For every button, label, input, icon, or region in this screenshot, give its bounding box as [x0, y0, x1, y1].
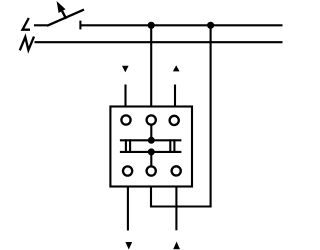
terminal circle bottom-right — [172, 166, 181, 175]
switch fixed contact tick — [79, 21, 81, 30]
arrow down (input) above box — [122, 66, 129, 73]
label N — [20, 37, 34, 51]
label L — [23, 18, 31, 30]
node on L (to terminal) — [148, 22, 155, 29]
terminal circle top-middle — [147, 115, 156, 124]
bus end tick left inner — [129, 139, 131, 153]
arrow up (input) below box — [173, 242, 180, 250]
bus junction dot lower — [148, 148, 155, 155]
internal link top-middle circle to bus — [150, 125, 152, 141]
wire L — [80, 24, 282, 26]
bus junction dot upper — [148, 137, 155, 144]
stub top-left — [124, 85, 126, 107]
bus end tick right inner — [169, 139, 171, 153]
stub top-right — [174, 85, 176, 107]
bus end tick left outer — [125, 139, 127, 153]
terminal circle bottom-left — [123, 166, 132, 175]
terminal circle bottom-middle — [147, 166, 156, 175]
wire L stub — [34, 24, 48, 26]
terminal circle top-left — [121, 115, 130, 124]
wire L to top-middle terminal — [150, 25, 152, 106]
switch S blade — [47, 10, 84, 26]
terminal circle top-right — [170, 116, 179, 125]
bus end tick right outer — [173, 139, 175, 153]
wire L right drop to bottom-middle terminal — [151, 25, 211, 206]
actuation arrow shaft — [62, 11, 66, 19]
stub bottom-right — [175, 187, 177, 231]
internal bus lower rail — [120, 151, 181, 153]
internal bus upper rail — [120, 139, 181, 141]
device box — [110, 107, 192, 187]
wire N — [35, 41, 283, 43]
arrow up (output) above box — [173, 65, 180, 71]
internal link bus to bottom-middle circle — [150, 152, 152, 167]
node on L (to right drop) — [207, 22, 214, 29]
stub bottom-left — [127, 187, 129, 231]
actuation arrow head — [57, 1, 66, 13]
arrow down (output) below box — [125, 242, 132, 250]
